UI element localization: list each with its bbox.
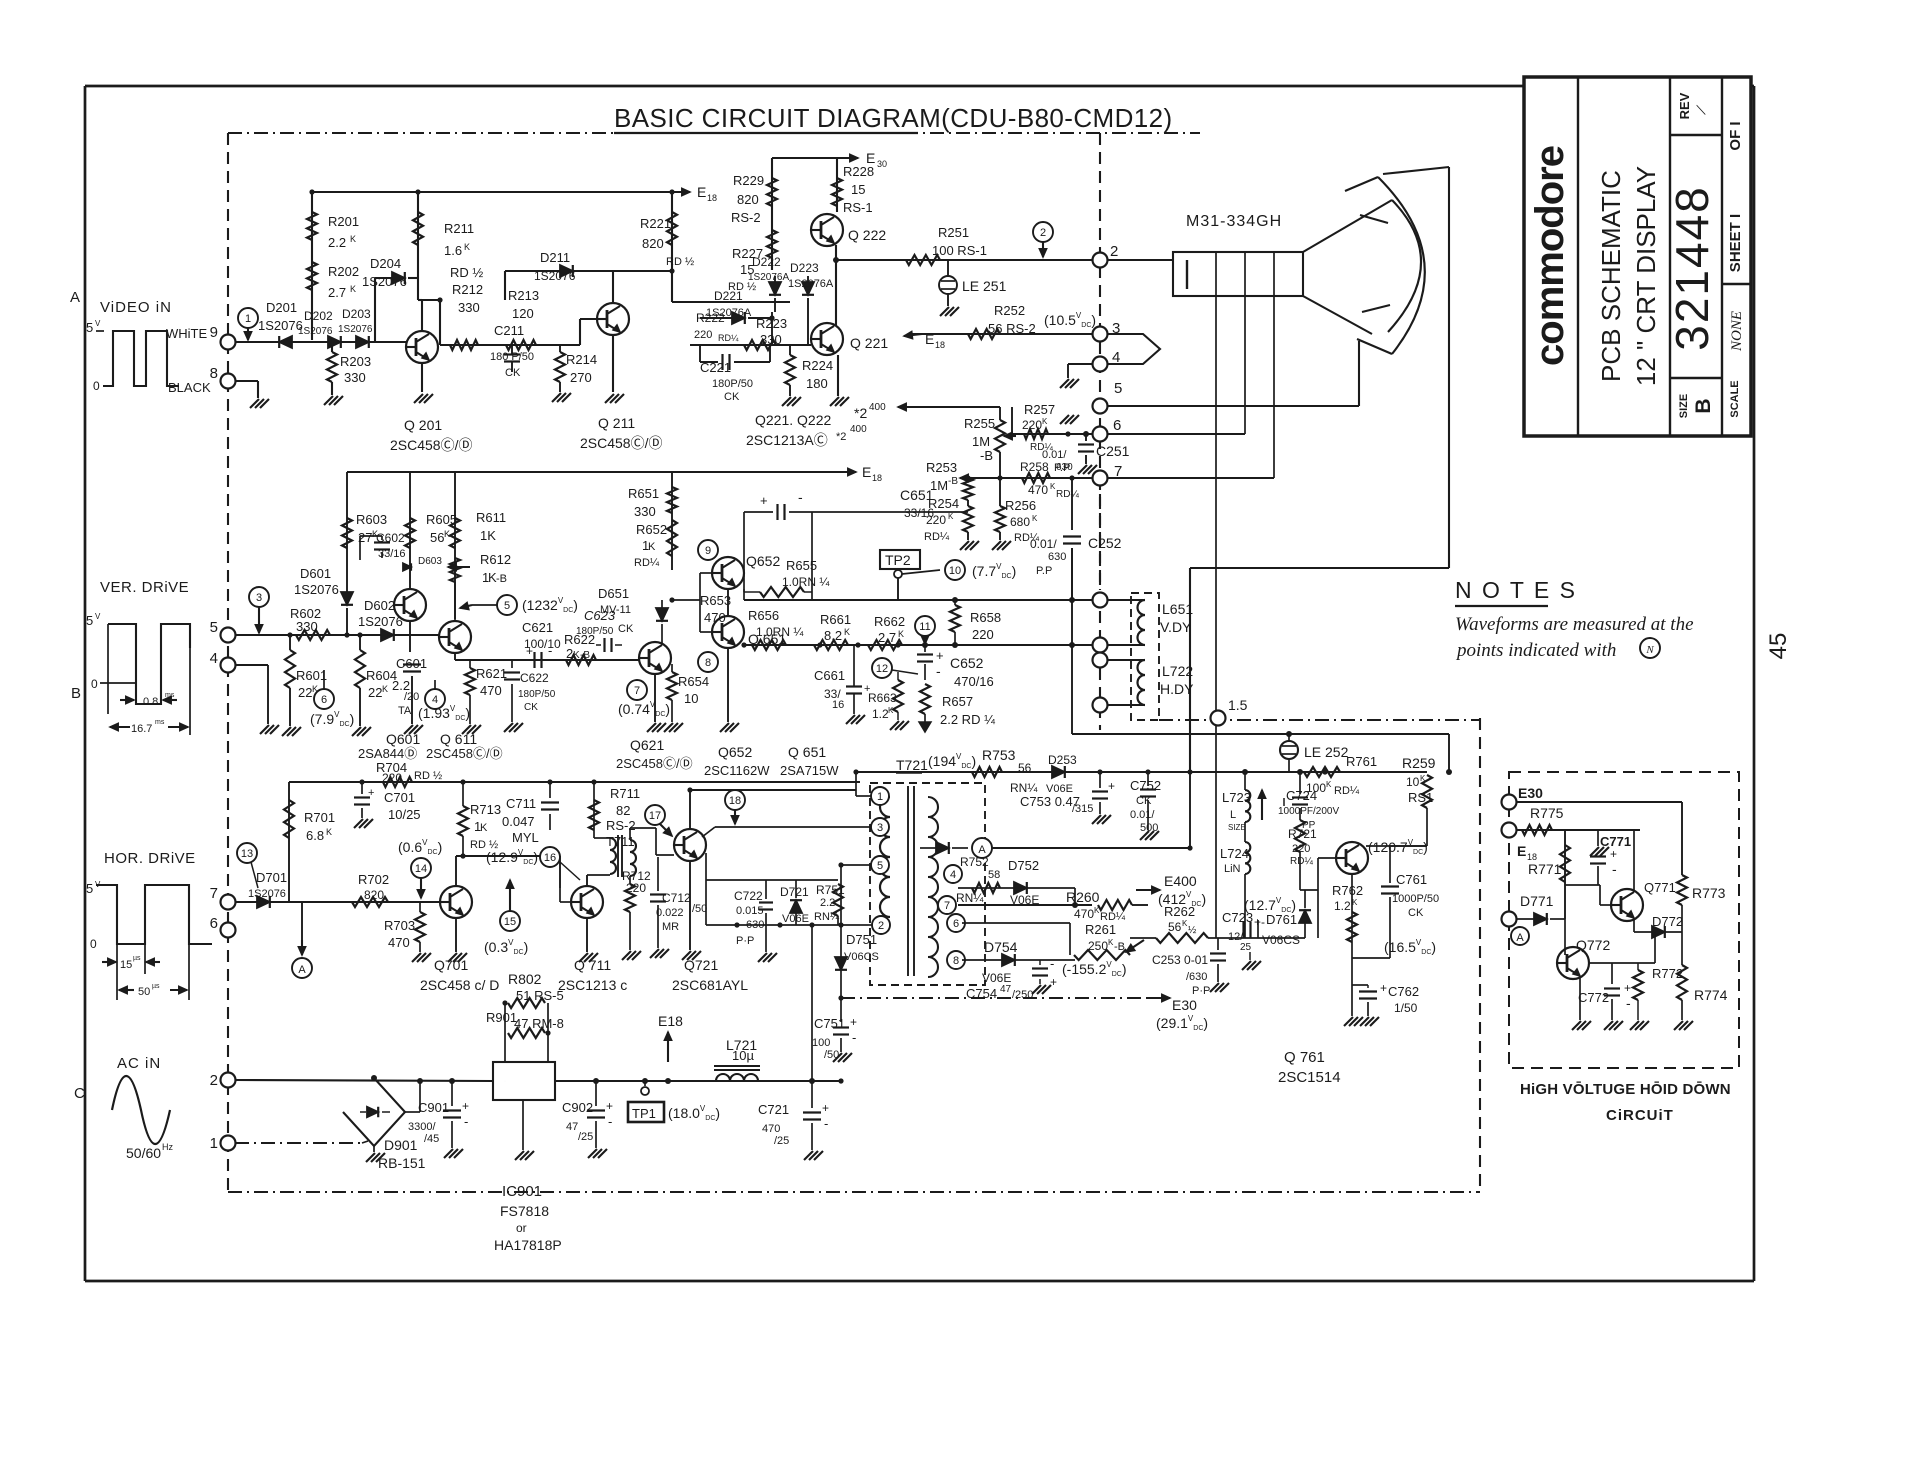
svg-text:4: 4	[210, 650, 218, 667]
svg-text:R773: R773	[1692, 885, 1726, 901]
svg-text:C901: C901	[418, 1100, 449, 1115]
svg-text:R258: R258	[1020, 460, 1049, 474]
svg-text:E400: E400	[1164, 873, 1197, 889]
svg-text:470/16: 470/16	[954, 674, 994, 689]
svg-text:Q721: Q721	[684, 957, 718, 973]
svg-text:C651: C651	[900, 487, 934, 503]
svg-text:D602: D602	[364, 598, 395, 613]
svg-text:L651: L651	[1162, 601, 1193, 617]
svg-text:2: 2	[1110, 243, 1118, 260]
svg-text:11: 11	[919, 621, 930, 633]
svg-text:16: 16	[544, 852, 556, 864]
svg-text:V.DY: V.DY	[1160, 619, 1192, 635]
svg-text:RD¼: RD¼	[634, 557, 660, 569]
svg-text:NONE: NONE	[1729, 311, 1745, 352]
svg-text:C724: C724	[1286, 788, 1317, 803]
svg-text:5: 5	[86, 881, 93, 896]
svg-text:120: 120	[512, 306, 534, 321]
svg-text:Q 761: Q 761	[1284, 1049, 1325, 1066]
svg-text:1: 1	[210, 1135, 218, 1152]
svg-text:R253: R253	[926, 460, 957, 475]
svg-text:470: 470	[704, 610, 726, 625]
svg-text:330: 330	[634, 504, 656, 519]
svg-text:+: +	[1050, 975, 1057, 989]
svg-text:E: E	[1517, 843, 1526, 859]
svg-text:MYL: MYL	[512, 830, 539, 845]
svg-text:400: 400	[850, 424, 867, 435]
svg-text:220: 220	[1022, 418, 1042, 432]
svg-text:K: K	[1352, 898, 1358, 907]
svg-text:100: 100	[812, 1037, 830, 1049]
svg-text:1.2: 1.2	[1334, 899, 1351, 913]
svg-text:10: 10	[1406, 775, 1420, 789]
svg-text:-B: -B	[580, 650, 590, 661]
svg-text:ms: ms	[155, 719, 165, 726]
svg-text:Q652: Q652	[718, 744, 752, 760]
svg-text:1S2076: 1S2076	[298, 326, 333, 337]
svg-text:C623: C623	[584, 608, 616, 623]
svg-text:C661: C661	[814, 668, 845, 683]
svg-text:10: 10	[949, 565, 961, 577]
svg-text:10: 10	[684, 691, 698, 706]
svg-text:R654: R654	[678, 674, 709, 689]
svg-text:330: 330	[760, 332, 782, 347]
svg-text:C621: C621	[522, 620, 553, 635]
svg-text:25: 25	[1240, 942, 1252, 953]
svg-text:R255: R255	[964, 416, 995, 431]
svg-text:K: K	[444, 529, 450, 539]
svg-text:N O T E S: N O T E S	[1455, 577, 1577, 603]
svg-text:RD¼: RD¼	[718, 333, 739, 343]
svg-text:HA17818P: HA17818P	[494, 1237, 562, 1253]
svg-text:C752: C752	[1130, 778, 1161, 793]
svg-text:L: L	[1230, 809, 1236, 821]
svg-text:D901: D901	[384, 1137, 418, 1153]
svg-text:220: 220	[626, 881, 646, 895]
svg-text:V06E: V06E	[1010, 893, 1039, 907]
svg-text:D721: D721	[780, 885, 809, 899]
svg-text:0.015: 0.015	[736, 905, 764, 917]
svg-text:K: K	[480, 822, 488, 834]
svg-text:K: K	[948, 512, 954, 521]
svg-text:ViDEO iN: ViDEO iN	[100, 299, 172, 316]
svg-text:+: +	[850, 1015, 857, 1029]
svg-text:R203: R203	[340, 354, 371, 369]
svg-text:180P/50: 180P/50	[518, 689, 556, 700]
svg-text:K: K	[464, 242, 470, 252]
svg-text:220: 220	[972, 627, 994, 642]
svg-text:R601: R601	[296, 668, 327, 683]
svg-text:51 RS-5: 51 RS-5	[516, 988, 564, 1003]
svg-text:D203: D203	[342, 307, 371, 321]
svg-text:D221: D221	[714, 289, 743, 303]
svg-text:LE 252: LE 252	[1304, 744, 1349, 760]
svg-text:+: +	[1624, 981, 1631, 995]
svg-text:D222: D222	[752, 255, 781, 269]
svg-text:BLACK: BLACK	[168, 380, 211, 395]
svg-text:R703: R703	[384, 918, 415, 933]
svg-text:6: 6	[210, 915, 218, 932]
svg-text:1/50: 1/50	[1394, 1001, 1418, 1015]
svg-text:56 RS-2: 56 RS-2	[988, 321, 1036, 336]
svg-text:18: 18	[872, 473, 882, 483]
svg-text:V06CS: V06CS	[844, 951, 879, 963]
svg-text:SHEET I: SHEET I	[1727, 214, 1744, 272]
svg-text:18: 18	[729, 795, 741, 807]
svg-text:P·P: P·P	[736, 935, 754, 947]
svg-text:Q652: Q652	[746, 553, 780, 569]
svg-text:R201: R201	[328, 214, 359, 229]
svg-text:A: A	[70, 289, 80, 306]
svg-text:-: -	[1626, 995, 1631, 1011]
svg-text:commodore: commodore	[1528, 146, 1572, 366]
svg-text:RD ½: RD ½	[414, 770, 442, 782]
svg-text:R221: R221	[640, 216, 671, 231]
svg-text:0.022: 0.022	[656, 907, 684, 919]
svg-text:C772: C772	[1578, 990, 1609, 1005]
svg-text:C211: C211	[494, 323, 524, 338]
svg-text:RB-151: RB-151	[378, 1155, 426, 1171]
svg-text:2: 2	[878, 920, 884, 932]
svg-text:E30: E30	[1518, 785, 1543, 801]
svg-text:MR: MR	[662, 921, 679, 933]
svg-text:B: B	[1692, 398, 1715, 413]
svg-text:R611: R611	[476, 510, 506, 525]
svg-text:CK: CK	[724, 391, 740, 403]
svg-text:A: A	[1516, 932, 1524, 944]
svg-text:Q 201: Q 201	[404, 417, 442, 433]
svg-text:820: 820	[642, 236, 664, 251]
svg-text:M31-334GH: M31-334GH	[1186, 213, 1282, 230]
svg-text:R202: R202	[328, 264, 359, 279]
svg-text:1.2: 1.2	[872, 707, 889, 721]
svg-text:T721: T721	[896, 757, 928, 773]
svg-text:16.7: 16.7	[131, 723, 152, 735]
svg-text:R657: R657	[942, 694, 973, 709]
svg-text:270: 270	[570, 370, 592, 385]
svg-text:D223: D223	[790, 261, 819, 275]
svg-text:C252: C252	[1088, 535, 1122, 551]
svg-text:R211: R211	[444, 221, 474, 236]
svg-text:1.0RN ¼: 1.0RN ¼	[756, 625, 804, 639]
svg-text:/315: /315	[1072, 803, 1093, 815]
svg-text:E: E	[862, 464, 871, 480]
svg-text:C711: C711	[506, 796, 536, 811]
svg-text:RS-1: RS-1	[843, 200, 873, 215]
svg-text:K: K	[1326, 780, 1332, 789]
svg-text:1S2076: 1S2076	[534, 269, 576, 283]
svg-text:Q772: Q772	[1576, 937, 1610, 953]
svg-text:-: -	[798, 489, 803, 505]
svg-text:22: 22	[298, 685, 312, 700]
svg-text:7: 7	[634, 685, 640, 697]
svg-text:C652: C652	[950, 655, 984, 671]
svg-text:CiRCUiT: CiRCUiT	[1606, 1107, 1674, 1124]
svg-text:CK: CK	[1408, 907, 1424, 919]
svg-text:2.2 RD ¼: 2.2 RD ¼	[940, 712, 995, 727]
svg-text:7: 7	[210, 885, 218, 902]
svg-text:C701: C701	[384, 790, 415, 805]
svg-text:630: 630	[746, 919, 764, 931]
svg-text:100 RS-1: 100 RS-1	[932, 243, 987, 258]
svg-text:30: 30	[877, 159, 887, 169]
svg-text:IC901: IC901	[502, 1183, 542, 1200]
svg-text:RN¼: RN¼	[1010, 781, 1038, 795]
svg-text:R259: R259	[1402, 755, 1436, 771]
svg-text:K: K	[1032, 514, 1038, 523]
svg-text:K: K	[350, 284, 356, 294]
svg-text:-: -	[464, 1114, 468, 1129]
svg-text:-: -	[852, 1030, 856, 1045]
svg-text:R702: R702	[358, 872, 389, 887]
svg-text:220: 220	[1292, 843, 1310, 855]
svg-text:-: -	[824, 1116, 828, 1131]
svg-text:2: 2	[1040, 227, 1046, 239]
svg-text:D651: D651	[598, 586, 629, 601]
svg-text:-B: -B	[980, 448, 993, 463]
svg-text:45: 45	[1765, 633, 1792, 660]
svg-text:220: 220	[382, 771, 402, 785]
svg-text:2SC458Ⓒ/Ⓓ: 2SC458Ⓒ/Ⓓ	[426, 746, 503, 761]
svg-text:1: 1	[245, 313, 251, 325]
svg-text:WHiTE: WHiTE	[166, 326, 207, 341]
svg-text:/25: /25	[774, 1135, 789, 1147]
svg-text:R653: R653	[700, 593, 731, 608]
svg-text:E: E	[925, 331, 934, 347]
svg-text:6: 6	[321, 694, 327, 706]
svg-text:0.047: 0.047	[502, 814, 535, 829]
svg-text:µs: µs	[152, 983, 160, 990]
svg-text:K: K	[898, 629, 904, 639]
svg-text:VER. DRiVE: VER. DRiVE	[100, 579, 189, 596]
svg-text:C721: C721	[758, 1102, 789, 1117]
svg-text:-: -	[936, 663, 941, 679]
svg-text:1000P/50: 1000P/50	[1392, 893, 1439, 905]
svg-text:R229: R229	[733, 173, 764, 188]
svg-text:16: 16	[832, 699, 844, 711]
svg-text:1000PF/200V: 1000PF/200V	[1278, 806, 1339, 817]
svg-text:8: 8	[953, 955, 959, 967]
svg-text:-: -	[548, 643, 552, 658]
svg-text:470: 470	[480, 683, 502, 698]
svg-text:V: V	[95, 319, 101, 328]
svg-text:2.7: 2.7	[328, 285, 346, 300]
svg-text:N: N	[1645, 644, 1654, 656]
svg-text:50: 50	[138, 986, 150, 998]
svg-text:+: +	[526, 644, 533, 658]
svg-text:+-: +-	[1254, 915, 1265, 929]
svg-text:8.2: 8.2	[824, 628, 842, 643]
svg-text:TP2: TP2	[885, 552, 911, 568]
svg-text:-B: -B	[1114, 941, 1125, 953]
svg-text:/50: /50	[692, 903, 707, 915]
svg-text:2SC681AYL: 2SC681AYL	[672, 977, 748, 993]
svg-text:R224: R224	[802, 358, 833, 373]
svg-text:R655: R655	[786, 558, 817, 573]
svg-text:/25: /25	[578, 1131, 593, 1143]
svg-text:330: 330	[344, 370, 366, 385]
svg-text:R901: R901	[486, 1010, 517, 1025]
svg-text:5: 5	[86, 320, 93, 335]
svg-text:+: +	[822, 1101, 829, 1115]
svg-text:R612: R612	[480, 552, 511, 567]
svg-text:R752: R752	[960, 855, 989, 869]
svg-text:D253: D253	[1048, 753, 1077, 767]
svg-text:RD¼: RD¼	[1056, 488, 1079, 500]
svg-text:R652: R652	[636, 522, 667, 537]
svg-text:330: 330	[458, 300, 480, 315]
svg-text:R662: R662	[874, 614, 905, 629]
svg-text:L722: L722	[1162, 663, 1193, 679]
svg-text:R213: R213	[508, 288, 539, 303]
svg-text:K: K	[350, 234, 356, 244]
svg-text:OF I: OF I	[1727, 121, 1744, 150]
svg-text:R753: R753	[982, 747, 1016, 763]
svg-text:E18: E18	[658, 1013, 683, 1029]
svg-text:RD¼: RD¼	[1290, 855, 1313, 867]
svg-text:R212: R212	[452, 282, 483, 297]
svg-text:CK: CK	[505, 367, 521, 379]
svg-text:P·P: P·P	[1192, 985, 1210, 997]
svg-text:9: 9	[210, 324, 218, 341]
svg-text:R261: R261	[1085, 922, 1116, 937]
svg-text:470: 470	[388, 935, 410, 950]
svg-text:CK: CK	[1136, 795, 1152, 807]
svg-text:C751: C751	[814, 1016, 845, 1031]
svg-text:2SC458Ⓒ/Ⓓ: 2SC458Ⓒ/Ⓓ	[390, 437, 472, 453]
svg-text:points indicated with: points indicated with	[1455, 640, 1616, 661]
svg-text:17: 17	[649, 810, 661, 822]
svg-text:R656: R656	[748, 608, 779, 623]
svg-text:C221: C221	[700, 360, 731, 375]
svg-text:3: 3	[256, 592, 262, 604]
svg-text:5: 5	[86, 613, 93, 628]
svg-text:8: 8	[705, 657, 711, 669]
svg-text:56: 56	[430, 530, 444, 545]
svg-text:P.P: P.P	[1036, 565, 1052, 577]
svg-text:D772: D772	[1652, 914, 1683, 929]
svg-text:5: 5	[1114, 380, 1122, 397]
svg-text:14: 14	[415, 863, 427, 875]
svg-text:0.8: 0.8	[143, 696, 158, 708]
svg-text:321448: 321448	[1666, 185, 1718, 351]
svg-text:C: C	[74, 1085, 85, 1102]
svg-text:R775: R775	[1530, 805, 1564, 821]
svg-text:820: 820	[364, 888, 384, 902]
svg-text:R256: R256	[1005, 498, 1036, 513]
svg-text:HOR. DRiVE: HOR. DRiVE	[104, 850, 196, 867]
svg-text:R252: R252	[994, 303, 1025, 318]
svg-text:1: 1	[877, 791, 883, 803]
svg-text:6.8: 6.8	[306, 828, 324, 843]
svg-text:R257: R257	[1024, 402, 1055, 417]
svg-text:RD ½: RD ½	[666, 256, 694, 268]
svg-text:47: 47	[1000, 984, 1012, 995]
svg-text:1S2076: 1S2076	[338, 324, 373, 335]
svg-text:33/16: 33/16	[904, 506, 934, 520]
svg-text:33/16: 33/16	[378, 548, 406, 560]
svg-text:12 " CRT DISPLAY: 12 " CRT DISPLAY	[1631, 166, 1661, 386]
svg-text:-: -	[1050, 956, 1054, 971]
svg-text:REV: REV	[1677, 92, 1692, 119]
svg-text:Q 211: Q 211	[598, 415, 635, 431]
svg-text:13: 13	[241, 848, 253, 860]
svg-text:/45: /45	[424, 1133, 439, 1145]
svg-text:V: V	[95, 612, 101, 621]
svg-text:5: 5	[877, 860, 883, 872]
svg-text:12: 12	[876, 663, 888, 675]
svg-text:D201: D201	[266, 300, 297, 315]
svg-text:PCB SCHEMATIC: PCB SCHEMATIC	[1596, 170, 1626, 382]
svg-text:3300/: 3300/	[408, 1121, 436, 1133]
svg-text:K: K	[382, 684, 388, 694]
svg-text:µs: µs	[133, 955, 141, 962]
svg-text:ms: ms	[165, 692, 175, 699]
svg-text:R761: R761	[1346, 754, 1377, 769]
svg-text:2SC458Ⓒ/Ⓓ: 2SC458Ⓒ/Ⓓ	[580, 435, 662, 451]
svg-text:180P/50: 180P/50	[576, 626, 614, 637]
svg-text:2.7: 2.7	[878, 630, 896, 645]
svg-text:R771: R771	[1528, 861, 1562, 877]
svg-text:10/25: 10/25	[388, 807, 421, 822]
svg-text:400: 400	[869, 402, 886, 413]
svg-text:/630: /630	[1186, 971, 1207, 983]
svg-text:C761: C761	[1396, 872, 1427, 887]
svg-text:680: 680	[1010, 515, 1030, 529]
svg-text:2SC1213 c: 2SC1213 c	[558, 977, 627, 993]
svg-text:E: E	[697, 184, 706, 200]
svg-text:1M: 1M	[972, 434, 990, 449]
svg-text:C902: C902	[562, 1100, 593, 1115]
svg-text:3: 3	[877, 822, 883, 834]
svg-text:5: 5	[210, 619, 218, 636]
svg-text:CK: CK	[618, 623, 634, 635]
svg-text:RD¼: RD¼	[924, 531, 950, 543]
svg-text:R772: R772	[1652, 966, 1683, 981]
svg-text:4: 4	[950, 869, 956, 881]
svg-text:2.2: 2.2	[328, 235, 346, 250]
svg-text:D603: D603	[418, 556, 442, 567]
svg-text:56: 56	[1168, 920, 1182, 934]
svg-text:R260: R260	[1066, 889, 1100, 905]
svg-text:-B: -B	[948, 476, 958, 487]
svg-text:K: K	[1042, 417, 1048, 426]
svg-text:2SA844Ⓓ: 2SA844Ⓓ	[358, 746, 417, 761]
svg-text:/250: /250	[1012, 989, 1033, 1001]
svg-text:+: +	[606, 1099, 613, 1113]
svg-text:1K: 1K	[480, 528, 496, 543]
svg-text:22: 22	[368, 685, 382, 700]
svg-text:D204: D204	[370, 256, 401, 271]
svg-text:D601: D601	[300, 566, 331, 581]
svg-text:8: 8	[210, 365, 218, 382]
svg-text:FS7818: FS7818	[500, 1203, 549, 1219]
svg-text:470: 470	[1074, 907, 1094, 921]
svg-text:250: 250	[1088, 939, 1108, 953]
svg-text:AC iN: AC iN	[117, 1055, 161, 1072]
svg-text:+: +	[368, 787, 374, 799]
svg-text:2SC1213AⒸ: 2SC1213AⒸ	[746, 432, 828, 448]
svg-text:V06CS: V06CS	[1262, 933, 1300, 947]
svg-text:1.6: 1.6	[444, 243, 462, 258]
svg-text:R774: R774	[1694, 987, 1728, 1003]
svg-text:K: K	[648, 541, 656, 553]
svg-text:K: K	[326, 827, 332, 837]
svg-text:630: 630	[1048, 551, 1066, 563]
svg-text:2SC1514: 2SC1514	[1278, 1069, 1341, 1086]
svg-text:1.5: 1.5	[1228, 697, 1248, 713]
svg-text:470: 470	[762, 1123, 780, 1135]
